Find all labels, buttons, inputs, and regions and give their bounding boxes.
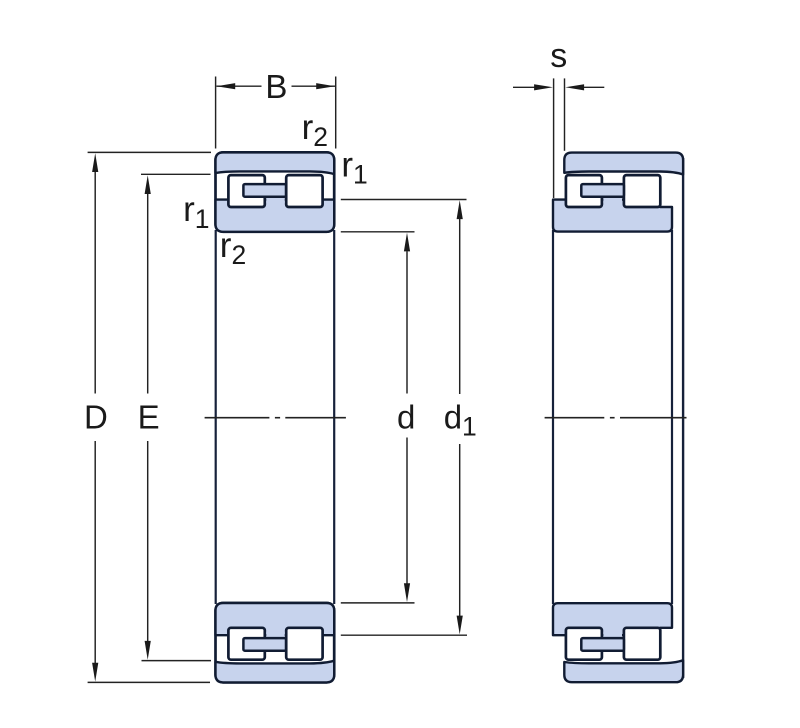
inner ring (553, 603, 672, 635)
cage bar (243, 638, 286, 651)
outer ring (564, 660, 683, 682)
outer ring (564, 153, 683, 175)
dimension E arrowheads (145, 175, 151, 660)
dimension d1 arrowheads (457, 200, 463, 634)
outer ring face silhouette right bearing (682, 158, 684, 678)
dimension D arrowheads (92, 153, 98, 681)
roller row 1 (566, 628, 602, 660)
cage center rib fill (266, 188, 284, 203)
cage center rib fill (603, 188, 622, 203)
bore silhouette line left bearing left (215, 230, 217, 604)
inner ring (216, 200, 335, 232)
cage center rib fill (266, 632, 284, 647)
centerline right bearing (545, 417, 687, 419)
cage center rib fill (603, 632, 622, 647)
outer ring (216, 152, 335, 174)
roller row 1 (228, 175, 264, 207)
roller row 2 (286, 628, 322, 660)
bore silhouette line left bearing right (333, 230, 335, 604)
dimension d arrowheads (404, 233, 410, 602)
svg-text:d: d (397, 398, 415, 435)
dimension E (141, 174, 211, 660)
dimension d (341, 232, 415, 603)
cage bar (581, 638, 624, 651)
roller row 1 (228, 628, 264, 660)
roller row 1 (566, 175, 602, 207)
roller row 2 (624, 175, 660, 207)
outer ring (216, 661, 335, 683)
dimension B extension lines (216, 77, 336, 149)
dimension s arrowheads (534, 84, 584, 90)
dimension d1 (341, 200, 467, 636)
svg-text:D: D (84, 398, 108, 435)
dimension s extension lines (513, 78, 604, 198)
centerline left bearing (205, 417, 346, 419)
cage bar (243, 184, 286, 197)
dimension B arrowheads (216, 83, 335, 89)
svg-text:B: B (265, 68, 287, 105)
roller row 2 (286, 175, 322, 207)
svg-text:s: s (550, 37, 567, 75)
cage bar (581, 184, 624, 197)
inner ring (553, 200, 672, 232)
inner ring (216, 603, 335, 635)
section body outline (216, 603, 335, 682)
svg-text:E: E (138, 398, 160, 435)
roller row 2 (624, 628, 660, 660)
dimension D (88, 152, 211, 682)
bore silhouette line right bearing right (671, 230, 673, 604)
bore silhouette line right bearing left (552, 230, 554, 604)
section body outline (216, 152, 335, 231)
